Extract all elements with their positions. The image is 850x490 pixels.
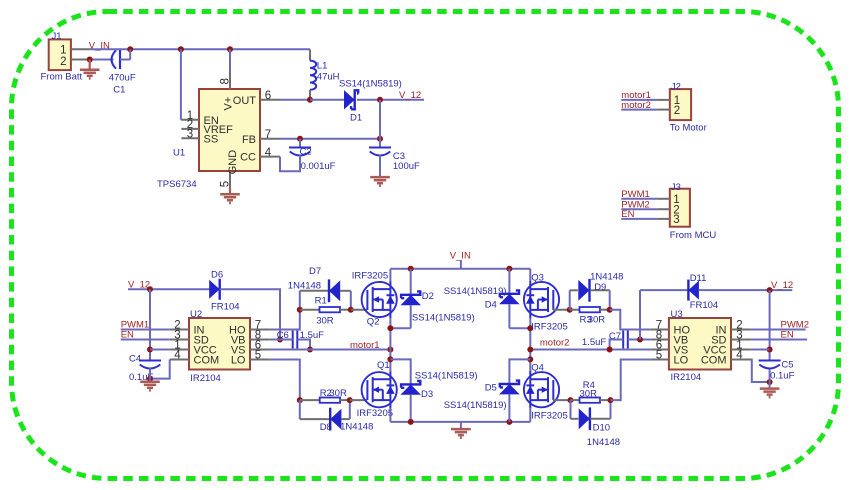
wire D2 anode to Q2 source <box>390 318 410 372</box>
capacitor C4 0.1uF <box>139 361 161 369</box>
svg-text:0.001uF: 0.001uF <box>301 161 336 172</box>
pin 1 VCC of U2 <box>170 340 217 357</box>
svg-text:From MCU: From MCU <box>670 230 717 241</box>
ref C5 <box>781 359 793 370</box>
wire V_12 to D6 <box>128 288 209 290</box>
svg-text:4: 4 <box>174 350 181 362</box>
wire HO to gate network Q2 <box>269 291 299 330</box>
value SS14(1N5819) of D3 <box>415 370 478 381</box>
wire V_12 column to VCC and C5 <box>769 290 771 360</box>
wire PWM1 to U2 IN <box>121 329 170 331</box>
junction at D5 bottom <box>506 419 512 425</box>
svg-text:FR104: FR104 <box>690 300 719 311</box>
pin 3 SD of U3 <box>711 330 751 347</box>
wire gate of Q1 <box>350 399 367 401</box>
svg-text:D2: D2 <box>422 291 434 302</box>
value 0.1uF of C5 <box>770 371 794 382</box>
ref C7 <box>609 331 621 342</box>
wire C2 top connection <box>299 139 301 148</box>
svg-text:U3: U3 <box>671 309 683 320</box>
node EN label at J3 <box>621 209 634 220</box>
wire HO U3 to gate network <box>610 310 651 330</box>
wire C5 to ground <box>769 369 771 388</box>
value 0.1uF of C4 <box>129 372 153 383</box>
wire OUT to L1 node <box>280 99 311 101</box>
diode D2 SS14(1N5819) <box>400 269 421 329</box>
pin 1 VCC of U3 <box>703 340 751 357</box>
svg-text:motor1: motor1 <box>350 340 380 351</box>
ref D5 <box>485 382 497 393</box>
op-amp U2 IR2104 body <box>189 318 250 370</box>
ref Q4 <box>531 362 544 373</box>
ref U3 <box>671 309 683 320</box>
ref Q3 <box>531 272 544 283</box>
svg-text:D7: D7 <box>309 266 321 277</box>
svg-text:L1: L1 <box>317 60 328 71</box>
svg-text:FB: FB <box>242 134 256 146</box>
ref D1 <box>350 113 362 124</box>
value 470uF of C1 <box>109 73 136 84</box>
op-amp U1 TPS6734 body <box>199 89 260 171</box>
ref D2 <box>422 291 434 302</box>
junction at C2 top <box>297 136 303 142</box>
svg-text:D1: D1 <box>350 113 362 124</box>
pin 5 LO of U2 <box>231 350 270 367</box>
svg-text:U2: U2 <box>190 309 202 320</box>
svg-text:D4: D4 <box>485 300 497 311</box>
ref D8 <box>320 422 332 433</box>
node V_12 label at U3 <box>771 280 793 291</box>
svg-text:D8: D8 <box>320 422 332 433</box>
wire D1 cathode to V_12 <box>357 99 424 101</box>
pin 4 COM of U3 <box>701 350 751 367</box>
ref Q1 <box>377 360 390 371</box>
wire LO to gate network Q1 <box>269 360 299 401</box>
svg-text:U1: U1 <box>173 148 185 159</box>
value SS14(1N5819) of D4 <box>444 286 507 297</box>
svg-text:Q3: Q3 <box>531 272 544 283</box>
junction at D5 branch <box>527 356 533 362</box>
svg-text:5: 5 <box>656 350 662 362</box>
wire V+ branch vertical <box>229 49 231 71</box>
ground at C4 <box>140 382 160 391</box>
wire Q3 drain <box>529 269 531 282</box>
svg-text:1N4148: 1N4148 <box>587 437 620 448</box>
svg-text:1N4148: 1N4148 <box>590 272 623 283</box>
svg-text:2: 2 <box>60 56 66 68</box>
ref R2 <box>320 388 332 399</box>
wire PWM2 from U3 IN <box>751 329 806 331</box>
pin 2 VREF of U1 <box>181 119 233 136</box>
pin 3 of J3 <box>657 214 679 226</box>
wire V_IN top rail <box>390 268 530 270</box>
capacitor C1 470uF polarized <box>112 50 121 69</box>
pin 6 VS of U3 <box>650 340 688 357</box>
junction at C4 ground node <box>147 376 153 382</box>
junction at R1 left <box>297 307 303 313</box>
pin 8 VB of U2 <box>231 330 270 347</box>
svg-text:FR104: FR104 <box>211 302 240 313</box>
ref C6 <box>277 330 289 341</box>
ground at bridge <box>451 422 471 438</box>
wire motor1 to J2 pin 1 <box>621 99 657 101</box>
pin 7 HO of U2 <box>229 320 269 337</box>
junction at C3 branch <box>377 97 383 103</box>
inductor L1 47uH <box>310 49 316 100</box>
wire VCC stub U3 <box>751 349 770 351</box>
junction at VCC tap U3 <box>767 347 773 353</box>
svg-text:D10: D10 <box>593 423 610 434</box>
value 1N4148 of D9 <box>590 272 623 283</box>
svg-text:LO: LO <box>231 355 246 367</box>
wire COM to ground U3 <box>751 360 770 383</box>
wire D11 anode to V_12 <box>699 289 792 291</box>
svg-text:IRF3205: IRF3205 <box>352 271 388 282</box>
pin 7 FB of U1 <box>242 129 280 146</box>
value 0.001uF of C2 <box>301 161 336 172</box>
wire D7 to R1 right node <box>350 291 352 310</box>
value 30R of R3 <box>588 315 606 326</box>
value 1.5uF of C6 <box>300 330 324 341</box>
value SS14(1N5819) of D2 <box>412 313 475 324</box>
svg-text:V_12: V_12 <box>399 90 421 101</box>
svg-text:3: 3 <box>673 214 679 226</box>
value 1N4148 of D7 <box>288 281 321 292</box>
pin 8 VB of U3 <box>650 330 688 347</box>
svg-text:SS14(1N5819): SS14(1N5819) <box>412 313 475 324</box>
junction at VB node U3 <box>637 337 643 343</box>
pin 5 LO of U3 <box>650 350 688 367</box>
junction at R3 right <box>607 307 613 313</box>
svg-text:4: 4 <box>736 350 743 362</box>
junction at FB/C3 column <box>377 136 383 142</box>
op-amp U3 IR2104 body <box>669 318 731 370</box>
transistor Q1 IRF3205 <box>362 371 397 408</box>
ref D10 <box>593 423 610 434</box>
wire VB U3 to C7 <box>628 339 651 341</box>
diode D4 SS14(1N5819) <box>499 269 520 329</box>
resistor R3 30R <box>570 307 610 312</box>
label From Batt <box>41 71 83 82</box>
diode D11 FR104 <box>640 280 699 301</box>
wire V_IN rail from J1 pin 1 <box>90 48 310 50</box>
value IR2104 of U2 <box>190 373 221 384</box>
svg-text:SS14(1N5819): SS14(1N5819) <box>415 370 478 381</box>
pin 1 of J1 <box>60 45 90 57</box>
value FR104 of D11 <box>690 300 719 311</box>
ref R4 <box>583 380 595 391</box>
ref C4 <box>129 354 141 365</box>
connector J2 <box>670 82 691 121</box>
wire L1 node to D1 <box>310 99 344 101</box>
svg-text:30R: 30R <box>580 388 598 399</box>
ref D3 <box>421 389 433 400</box>
connector J1 <box>49 31 71 70</box>
junction at R2 right <box>347 397 353 403</box>
diode D3 SS14(1N5819) <box>390 359 421 422</box>
wire C7 to VS node <box>610 340 624 350</box>
svg-text:IRF3205: IRF3205 <box>357 408 393 419</box>
value IRF3205 of Q1 <box>357 408 393 419</box>
diode D7 1N4148 <box>300 279 351 302</box>
value 1N4148 of D10 <box>587 437 620 448</box>
svg-text:D3: D3 <box>421 389 433 400</box>
svg-text:4: 4 <box>265 147 272 159</box>
pin 1 EN of U1 <box>181 110 218 127</box>
node motor1 label <box>350 340 380 351</box>
svg-text:D5: D5 <box>485 382 497 393</box>
ref L1 <box>317 60 328 71</box>
value 1.5uF of C7 <box>582 337 606 348</box>
junction at R4 right <box>608 397 614 403</box>
svg-text:C2: C2 <box>300 147 312 158</box>
junction at C5 ground node <box>767 379 773 385</box>
ref D4 <box>485 300 497 311</box>
svg-text:30R: 30R <box>329 388 347 399</box>
svg-text:IR2104: IR2104 <box>671 372 702 383</box>
node V_IN label <box>89 40 110 51</box>
value 47uH of L1 <box>317 72 340 83</box>
pin 4 CC of U1 <box>240 147 280 164</box>
ref U2 <box>190 309 202 320</box>
ref D9 <box>594 282 606 293</box>
junction at motor2 column <box>527 347 533 353</box>
svg-text:8: 8 <box>219 78 231 84</box>
svg-text:IRF3205: IRF3205 <box>531 321 567 332</box>
pin 7 HO of U3 <box>650 320 690 337</box>
node motor1 label at J2 <box>621 90 651 101</box>
resistor R1 30R <box>300 307 351 312</box>
svg-text:motor2: motor2 <box>540 337 570 348</box>
wire C4 to ground <box>149 368 151 381</box>
wire J1 pin 2 to C1 <box>90 59 114 61</box>
svg-text:5: 5 <box>255 350 261 362</box>
svg-text:R1: R1 <box>315 296 327 307</box>
pin 3 SD of U2 <box>170 330 209 347</box>
wire Q2 drain <box>389 269 391 282</box>
value FR104 of D6 <box>211 302 240 313</box>
junction at VB node U2 <box>277 337 283 343</box>
node PWM2 label at J3 <box>621 199 650 210</box>
svg-text:30R: 30R <box>588 315 606 326</box>
value SS14(1N5819) of D1 <box>339 79 402 90</box>
svg-text:C1: C1 <box>113 85 125 96</box>
label To Motor <box>670 122 707 133</box>
junction at R3 left <box>567 307 573 313</box>
value 100uF of C3 <box>393 161 420 172</box>
svg-text:47uH: 47uH <box>317 72 340 83</box>
junction at OUT/L1 node <box>307 97 313 103</box>
value IRF3205 of Q4 <box>531 410 567 421</box>
svg-text:30R: 30R <box>316 316 334 327</box>
wire COM to ground U2 <box>150 360 170 379</box>
node V_IN label at bridge <box>450 251 471 269</box>
capacitor C6 1.5uF <box>293 331 298 349</box>
pin 1 of J2 <box>657 95 680 107</box>
wire EN to J3 pin 3 <box>621 218 657 220</box>
svg-text:To Motor: To Motor <box>670 122 707 133</box>
wire D4 anode to Q3 source <box>509 318 530 372</box>
svg-text:1.5uF: 1.5uF <box>582 337 606 348</box>
wire EN branch vertical <box>180 49 183 119</box>
junction at Q2 source / D2 <box>387 325 393 331</box>
svg-text:V_12: V_12 <box>771 280 793 291</box>
svg-text:100uF: 100uF <box>393 161 420 172</box>
node EN label at U2 <box>121 329 134 340</box>
wire PWM2 to J3 pin 2 <box>621 208 657 210</box>
value IRF3205 of Q3 <box>531 321 567 332</box>
pin 8 V+ of U1 <box>219 71 234 111</box>
ref C2 <box>300 147 312 158</box>
svg-text:D9: D9 <box>594 282 606 293</box>
pin 6 OUT of U1 <box>233 90 280 107</box>
svg-text:Q4: Q4 <box>531 362 544 373</box>
ref D6 <box>211 270 223 281</box>
diode D9 1N4148 <box>570 279 610 310</box>
junction at J1 pin 2 ground tap <box>87 57 93 63</box>
junction at Q3 source / D4 <box>527 325 533 331</box>
svg-text:J1: J1 <box>52 31 62 42</box>
junction at V+ branch <box>227 46 233 52</box>
svg-text:1N4148: 1N4148 <box>340 422 373 433</box>
ref R3 <box>580 315 592 326</box>
capacitor C7 1.5uF <box>623 331 628 349</box>
wire FB net <box>280 138 381 140</box>
value SS14(1N5819) of D5 <box>444 400 507 411</box>
svg-text:SS14(1N5819): SS14(1N5819) <box>444 400 507 411</box>
svg-text:SS: SS <box>204 133 219 145</box>
resistor R2 30R <box>300 398 350 403</box>
svg-text:TPS6734: TPS6734 <box>157 179 197 190</box>
svg-text:COM: COM <box>194 355 220 367</box>
node motor2 label at J2 <box>621 100 651 111</box>
svg-text:470uF: 470uF <box>109 73 136 84</box>
node PWM1 label at U2 <box>121 319 150 330</box>
ref D7 <box>309 266 321 277</box>
junction at motor1 column <box>387 347 393 353</box>
junction at EN branch <box>178 46 184 52</box>
label From MCU <box>670 230 717 241</box>
svg-text:C7: C7 <box>609 331 621 342</box>
resistor R4 30R <box>571 398 611 403</box>
ref D11 <box>690 273 707 284</box>
wire gate of Q3 <box>553 309 570 311</box>
ref C1 <box>113 85 125 96</box>
svg-text:J2: J2 <box>671 82 681 93</box>
pin 2 of J1 <box>60 56 90 68</box>
svg-text:Q1: Q1 <box>377 360 390 371</box>
wire C1 plus to V_IN rail <box>120 49 130 59</box>
wire VB to C6 <box>269 339 292 341</box>
wire VB column to D11 <box>639 290 641 339</box>
wire motor2 net <box>530 349 650 351</box>
wire Q4 source to ground rail <box>529 408 531 422</box>
value 1N4148 of D8 <box>340 422 373 433</box>
junction at V_12/VCC column U2 <box>147 286 153 292</box>
node motor2 label <box>540 337 570 348</box>
diode D1 SS14(1N5819) <box>344 90 358 109</box>
svg-text:6: 6 <box>265 90 271 102</box>
diode D5 SS14(1N5819) <box>499 359 530 422</box>
wire V_12 to VCC and C4 <box>149 289 151 360</box>
junction at C6/VS <box>307 347 313 353</box>
transistor Q3 IRF3205 <box>524 281 559 318</box>
svg-text:2: 2 <box>674 105 680 117</box>
pin 2 IN of U2 <box>170 320 205 337</box>
node PWM1 label at J3 <box>621 189 650 200</box>
svg-text:3: 3 <box>187 129 193 141</box>
wire gate of Q2 <box>351 309 367 311</box>
wire C6 to VS node <box>297 340 310 350</box>
svg-text:1: 1 <box>60 45 66 57</box>
ref Q2 <box>367 317 380 328</box>
ground at J1 <box>80 60 100 79</box>
diode D10 1N4148 <box>571 400 611 430</box>
value TPS6734 <box>157 179 197 190</box>
svg-text:1N4148: 1N4148 <box>288 281 321 292</box>
capacitor C5 0.1uF <box>759 361 781 369</box>
svg-text:IRF3205: IRF3205 <box>531 410 567 421</box>
connector J3 <box>670 182 690 227</box>
svg-text:CC: CC <box>240 152 256 164</box>
svg-text:0.1uF: 0.1uF <box>770 371 794 382</box>
pin 2 IN of U3 <box>716 320 751 337</box>
wire CC pin to C2 bottom <box>280 155 300 171</box>
wire EN to U2 SD <box>121 339 170 341</box>
wire ground rail of bridge <box>390 421 530 423</box>
svg-text:OUT: OUT <box>233 95 257 107</box>
pin 5 GND of U1 <box>219 150 239 188</box>
junction at R2 left <box>297 397 303 403</box>
ref R1 <box>315 296 327 307</box>
value 30R of R2 <box>329 388 347 399</box>
junction at D2 top <box>408 266 414 272</box>
junction at C7/VS <box>607 347 613 353</box>
wire EN from U3 SD <box>751 339 807 341</box>
svg-text:5: 5 <box>219 181 231 187</box>
value IRF3205 of Q2 <box>352 271 388 282</box>
junction at D3 bottom <box>408 419 414 425</box>
value 30R of R4 <box>580 388 598 399</box>
node PWM2 label at U3 <box>781 319 810 330</box>
pin 6 VS of U2 <box>231 340 270 357</box>
junction at R4 left <box>568 397 574 403</box>
node V_12 label at D1 output <box>399 90 421 101</box>
transistor Q4 IRF3205 <box>524 371 559 408</box>
pin 3 SS of U1 <box>181 129 218 146</box>
junction at D3 branch <box>387 356 393 362</box>
pin 4 COM of U2 <box>170 350 219 367</box>
svg-text:GND: GND <box>227 150 239 175</box>
wire V_12 column to C3 <box>379 100 381 148</box>
ground at C3 <box>370 177 390 186</box>
svg-text:C5: C5 <box>781 359 793 370</box>
node V_12 label at U2 <box>128 280 150 291</box>
junction at D4 top <box>506 266 512 272</box>
capacitor C3 100uF <box>369 148 391 156</box>
wire Q1 source to ground rail <box>389 408 391 422</box>
svg-text:J3: J3 <box>671 182 681 193</box>
transistor Q2 IRF3205 <box>362 281 397 318</box>
junction at C1 top <box>127 46 133 52</box>
svg-text:SS14(1N5819): SS14(1N5819) <box>339 79 402 90</box>
junction at VCC tap U2 <box>147 347 153 353</box>
svg-text:C4: C4 <box>129 354 141 365</box>
svg-text:SS14(1N5819): SS14(1N5819) <box>444 286 507 297</box>
node EN label at U3 <box>781 329 794 340</box>
wire PWM1 to J3 pin 1 <box>621 198 657 200</box>
diode D6 FR104 <box>209 279 220 300</box>
